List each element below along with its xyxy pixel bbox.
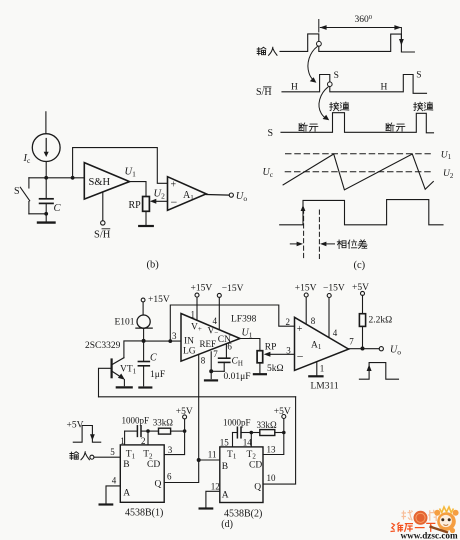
pin 4 wire to -15V <box>218 297 220 329</box>
wire feedback IN to LM311 pin 2 <box>170 305 294 341</box>
arrow S/H to S pulse <box>319 87 329 120</box>
svg-text:(d): (d) <box>221 519 233 530</box>
svg-text:7: 7 <box>349 336 354 346</box>
wire cap to node second <box>241 432 251 434</box>
svg-text:Q: Q <box>254 483 261 493</box>
svg-text:B: B <box>123 460 129 470</box>
label jietong second pulse <box>414 102 433 111</box>
svg-text:www.dzsc.com: www.dzsc.com <box>401 531 459 540</box>
svg-text:11: 11 <box>208 450 217 460</box>
svg-text:V−: V− <box>208 327 219 338</box>
wire supply stub to current source <box>45 112 47 134</box>
svg-text:3: 3 <box>168 445 173 455</box>
pin 1 wire up <box>124 431 126 445</box>
svg-text:IN: IN <box>184 337 194 347</box>
op-amp A1 <box>168 177 207 211</box>
svg-text:15: 15 <box>220 437 230 447</box>
svg-text:C: C <box>150 353 157 364</box>
node junction cap/T2 <box>146 429 150 433</box>
svg-text:S/H: S/H <box>94 230 111 241</box>
dashed threshold U1 <box>286 153 431 155</box>
label input (shuru) <box>70 452 90 460</box>
terminal +5V first <box>183 415 187 431</box>
wire node to 4538B(2) pin 11 <box>199 459 220 461</box>
svg-text:RP: RP <box>265 342 277 352</box>
wire +5V to resistor <box>362 295 364 313</box>
arrow pointing right to dashed <box>290 242 303 247</box>
dashed line right phase <box>318 210 320 259</box>
svg-text:S/H: S/H <box>256 87 272 98</box>
node junction at Ic/C <box>44 176 48 180</box>
ground below pin 7 <box>205 379 217 381</box>
svg-text:RP: RP <box>129 200 142 211</box>
input terminal <box>90 455 94 459</box>
svg-text:CD: CD <box>147 460 160 470</box>
current source Ic <box>32 134 60 162</box>
svg-text:Q: Q <box>155 479 162 489</box>
svg-text:A: A <box>123 488 130 498</box>
ground below RP <box>139 211 153 226</box>
wire +5V node to pin 3 CD <box>164 431 184 455</box>
svg-text:+: + <box>171 180 177 191</box>
svg-text:0.01μF: 0.01μF <box>224 372 251 382</box>
ground below C <box>38 214 55 223</box>
label input (shuru) row1 <box>257 47 277 55</box>
svg-text:−15V: −15V <box>222 284 244 294</box>
ground below RP <box>254 363 266 374</box>
wire VT1 base to Q2 riser <box>99 396 296 398</box>
svg-text:A: A <box>222 491 229 501</box>
svg-text:8: 8 <box>311 316 316 326</box>
resistor 2.2k <box>359 314 365 327</box>
wire VT1 base <box>99 368 112 397</box>
svg-text:+5V: +5V <box>67 420 84 430</box>
svg-text:1000pF: 1000pF <box>122 415 150 425</box>
node junction feedback tap at IN <box>168 339 172 343</box>
pin 12 wire to ground <box>200 491 220 508</box>
svg-text:(b): (b) <box>147 260 160 271</box>
svg-text:S: S <box>334 71 339 81</box>
node junction pin7/CH <box>209 369 213 373</box>
waveform output square row5 <box>280 200 443 225</box>
label phase difference (xiangweicha) <box>337 240 367 249</box>
wire feedback to A1 + input <box>73 148 168 184</box>
svg-text:2.2kΩ: 2.2kΩ <box>369 315 393 325</box>
label jietong first pulse <box>330 102 349 111</box>
input waveform symbol <box>73 426 100 443</box>
label S/H bar row2 <box>256 87 272 98</box>
capacitor 1000pF second <box>237 427 241 438</box>
svg-text:33kΩ: 33kΩ <box>153 417 174 427</box>
svg-text:3: 3 <box>286 345 291 355</box>
capacitor C 1uF <box>138 341 149 386</box>
pin 1 wire to +15V <box>196 297 198 320</box>
resistor 33k second <box>260 430 275 436</box>
label S/H bar <box>94 229 111 241</box>
IC 4538B(1) <box>120 445 164 502</box>
svg-text:S: S <box>14 186 20 197</box>
ground below C 1uF <box>139 386 151 388</box>
waveform Uc sawtooth <box>283 154 433 190</box>
wire CH bottom to pin 7 node <box>211 370 224 372</box>
svg-text:33kΩ: 33kΩ <box>257 420 278 430</box>
wire node to resistor <box>148 430 159 432</box>
IC 4538B(2) <box>220 447 263 503</box>
pin 8 wire to +15V <box>305 297 307 324</box>
svg-text:1: 1 <box>191 310 196 320</box>
svg-text:+5V: +5V <box>274 407 291 417</box>
terminal +15V LF398 <box>195 293 199 297</box>
node junction cap/T2 second <box>250 431 254 435</box>
wire +15V to E101 <box>142 302 144 315</box>
node junction +5V/CD first <box>183 429 187 433</box>
node junction output/pullup <box>361 347 365 351</box>
wire LF398 output to RP <box>240 339 260 351</box>
svg-text:LF398: LF398 <box>231 315 257 325</box>
wire node to resistor second <box>251 432 259 434</box>
svg-text:7: 7 <box>213 349 218 359</box>
pin 8 LG wire down <box>198 354 200 460</box>
waveform input row1 <box>280 34 414 52</box>
wire pin 15 to cap <box>233 432 238 434</box>
svg-text:E101: E101 <box>115 318 135 328</box>
arrow pointing left to dashed <box>320 242 335 247</box>
watermark dzsc <box>391 507 459 540</box>
svg-text:S&H: S&H <box>89 177 111 188</box>
svg-text:2: 2 <box>141 436 146 446</box>
pin 15 wire up <box>232 433 234 447</box>
wire resistor to output node <box>362 326 364 348</box>
svg-text:+15V: +15V <box>148 295 170 305</box>
svg-text:10: 10 <box>267 473 277 483</box>
wire resistor to +5V node <box>171 430 185 432</box>
svg-text:+15V: +15V <box>191 284 213 294</box>
svg-text:CD: CD <box>249 460 262 470</box>
op-amp S&H U1 <box>84 163 129 200</box>
svg-text:1: 1 <box>320 364 325 374</box>
pin 6 wire to CH <box>225 344 227 358</box>
wire LM311 output pin 7 <box>349 348 380 350</box>
svg-text:3: 3 <box>172 331 177 341</box>
wire pin1 to cap <box>125 430 138 432</box>
svg-text:13: 13 <box>267 445 277 455</box>
svg-text:−: − <box>171 195 178 209</box>
node circle on input falling edge <box>317 41 322 46</box>
pin 1 wire to ground <box>309 362 322 377</box>
svg-text:V+: V+ <box>191 323 202 334</box>
terminal +5V pullup <box>361 291 365 295</box>
waveform symbol at Uo <box>359 363 398 380</box>
arrow input to S/H pulse <box>308 47 317 83</box>
current regulator diode E101 <box>136 315 152 328</box>
svg-text:4: 4 <box>213 316 218 326</box>
pin 4 wire to ground <box>100 486 121 505</box>
node junction feedback tap <box>71 176 75 180</box>
node junction LG/B2/Q1 <box>197 458 201 462</box>
svg-text:+: + <box>297 324 303 335</box>
svg-text:4: 4 <box>112 476 117 486</box>
svg-text:H: H <box>381 82 388 92</box>
svg-text:S: S <box>416 71 421 81</box>
wire node to pin 14 <box>250 433 252 447</box>
svg-text:+5V: +5V <box>352 283 369 293</box>
pin 7 REF wire to ground <box>210 352 212 379</box>
svg-text:+5V: +5V <box>176 407 193 417</box>
terminal -15V LM311 <box>327 294 331 298</box>
svg-text:LG: LG <box>183 347 196 357</box>
wire node to LF398 IN pin 3 <box>144 340 181 342</box>
capacitor 1000pF first <box>137 426 141 437</box>
svg-text:1000pF: 1000pF <box>223 418 251 428</box>
terminal Uo LM311 <box>379 347 383 351</box>
terminal +15V LM311 <box>304 293 308 297</box>
comparator A1 LM311 <box>295 317 349 370</box>
terminal +15V for E101 <box>141 298 145 302</box>
potentiometer RP <box>143 197 150 212</box>
wire current source to node <box>45 162 47 178</box>
svg-text:B: B <box>222 462 228 472</box>
terminal Uo <box>229 193 233 197</box>
wire input to pin 5 <box>94 456 120 458</box>
svg-text:6: 6 <box>227 342 232 352</box>
svg-text:LM311: LM311 <box>311 382 339 392</box>
svg-text:REF: REF <box>200 339 217 349</box>
resistor 33k first <box>159 428 171 434</box>
svg-text:14: 14 <box>243 437 253 447</box>
terminal -15V LF398 <box>217 293 221 297</box>
svg-text:−15V: −15V <box>323 284 345 294</box>
wire node down to Q1 pin 6 <box>164 460 199 483</box>
svg-text:(c): (c) <box>354 260 366 271</box>
ground below VT1 emitter <box>117 386 132 388</box>
capacitor CH <box>219 358 230 371</box>
svg-text:C: C <box>54 203 62 214</box>
wire riser to 4538B(2) Q pin 10 <box>263 397 296 484</box>
svg-text:5kΩ: 5kΩ <box>267 364 284 374</box>
node junction +5V/CD second <box>282 431 286 435</box>
dashed line left phase <box>303 209 305 259</box>
wire node to pin 2 <box>147 431 149 445</box>
op-amp LF398 <box>181 314 240 362</box>
label duankai right <box>386 123 405 131</box>
waveform S row3 <box>281 113 434 133</box>
svg-text:+15V: +15V <box>295 284 317 294</box>
wire S&H output to RP <box>130 182 147 197</box>
node circle on S/H falling edge <box>328 82 333 87</box>
arrow up on rising edge <box>301 205 306 211</box>
wire cap to node <box>141 430 148 432</box>
svg-text:6: 6 <box>167 472 172 482</box>
svg-text:4: 4 <box>333 328 338 338</box>
svg-text:2SC3329: 2SC3329 <box>85 341 121 351</box>
waveform S/H row2 <box>282 75 427 94</box>
wire node to S&H input <box>29 177 84 179</box>
S/H control pin terminal <box>101 192 105 225</box>
svg-text:S: S <box>268 128 274 139</box>
wire A1 output to Uo <box>206 194 229 197</box>
svg-text:2: 2 <box>286 317 291 327</box>
svg-text:8: 8 <box>201 356 206 366</box>
wiper arrow to LM311 pin 3 <box>264 352 295 357</box>
wire E101 to node <box>143 328 145 341</box>
dashed threshold U2 <box>285 171 430 173</box>
pin 4 wire to -15V <box>328 298 330 338</box>
svg-text:4538B(1): 4538B(1) <box>125 507 163 518</box>
wire node to VT1 collector <box>124 341 144 358</box>
capacitor C <box>40 178 53 214</box>
potentiometer RP 5k <box>257 351 263 363</box>
svg-text:5: 5 <box>110 447 115 457</box>
wiper arrow U2 to A1 - input <box>150 199 168 204</box>
wire +5V node to pin 13 CD <box>263 433 284 455</box>
svg-text:4538B(2): 4538B(2) <box>224 508 262 519</box>
terminal +5V second <box>282 415 286 433</box>
wire resistor to +5V node second <box>275 432 284 434</box>
svg-text:1: 1 <box>120 436 125 446</box>
wire switch to cap bottom <box>29 213 46 215</box>
switch S <box>20 178 29 214</box>
transistor VT1 2SC3329 <box>112 358 125 386</box>
node junction cap bottom <box>44 212 48 216</box>
svg-text:1μF: 1μF <box>150 370 165 380</box>
svg-text:−: − <box>297 350 304 364</box>
node junction E101/C/IN <box>142 339 146 343</box>
dimension 360 degrees <box>319 20 404 46</box>
svg-text:H: H <box>291 82 298 92</box>
svg-text:12: 12 <box>211 482 220 492</box>
label duankai left <box>299 123 318 131</box>
